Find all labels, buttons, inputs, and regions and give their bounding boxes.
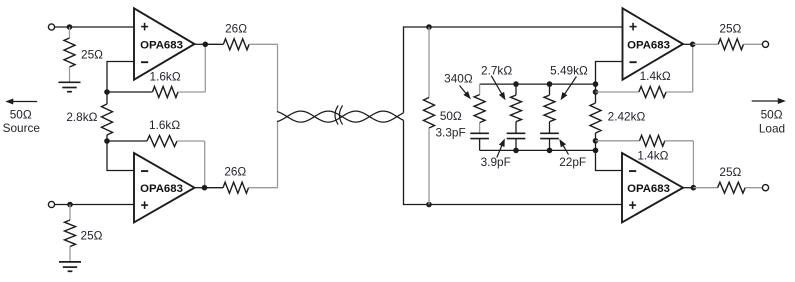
equalizer top rail (U3 inverting net) xyxy=(480,83,596,85)
wire column to U4 inverting input xyxy=(596,133,622,171)
resistor RT1 25 ohm (top input termination) xyxy=(64,27,75,82)
arrow to C2 xyxy=(497,144,503,158)
resistor RG1 2.8k ohm (gain-set between inverting inputs) xyxy=(102,92,113,141)
node F (U2 output) xyxy=(202,185,208,191)
op-amp U1 OPA683 (top-left driver) xyxy=(134,8,195,79)
label 50 ohm Load xyxy=(759,108,785,136)
svg-text:25Ω: 25Ω xyxy=(81,48,103,62)
wire node D to U2 inverting input xyxy=(107,141,134,171)
output terminal J4 (bottom) xyxy=(762,185,768,191)
resistor RO4 25 ohm (bottom output) xyxy=(693,182,762,193)
resistor RF2 1.6k ohm (U2 feedback, cross-coupled) xyxy=(107,136,205,147)
svg-text:25Ω: 25Ω xyxy=(719,21,741,35)
resistor RT3 50 ohm (line termination) xyxy=(424,27,435,205)
svg-text:2.7kΩ: 2.7kΩ xyxy=(481,64,512,78)
equalizer bottom rail (U4 inverting net) xyxy=(480,149,596,151)
op-amp U3 OPA683 (top-right receiver) xyxy=(623,8,684,79)
arrow to RE3 xyxy=(564,77,577,96)
node A (top input junction) xyxy=(67,24,73,30)
svg-text:50Ω: 50Ω xyxy=(440,109,462,123)
50 ohm Source direction arrow xyxy=(11,101,37,103)
arrow to C3 xyxy=(562,144,568,154)
svg-text:1.6kΩ: 1.6kΩ xyxy=(150,69,181,83)
svg-text:25Ω: 25Ω xyxy=(81,228,103,242)
resistor RF1 1.6k ohm (U1 feedback) xyxy=(107,87,205,98)
node on bottom rail at C2 xyxy=(513,148,519,154)
svg-text:50Ω: 50Ω xyxy=(761,108,783,122)
cable break marks xyxy=(335,106,343,125)
ground (top-left) xyxy=(59,82,81,91)
wire RF2 to U2 output node xyxy=(204,141,206,188)
resistor RT2 25 ohm (bottom input termination) xyxy=(65,205,76,262)
node bottom rail joins column xyxy=(593,148,599,154)
capacitor C3 22pF xyxy=(540,133,559,138)
node on top rail at RE2 xyxy=(513,81,519,87)
50 ohm Load direction arrow xyxy=(752,100,780,102)
wire J1 to U1 non-inverting input xyxy=(55,26,134,28)
node top rail joins column xyxy=(593,81,599,87)
node RF3 joins column xyxy=(593,89,599,95)
resistor RO1 26 ohm (top line build-out) xyxy=(205,39,277,50)
node G (top rail tap) xyxy=(426,24,432,30)
wire RF1 to U1 output node xyxy=(204,44,206,92)
svg-text:26Ω: 26Ω xyxy=(224,165,246,179)
wire U3 apex to output node xyxy=(683,43,693,45)
svg-text:25Ω: 25Ω xyxy=(719,165,741,179)
input terminal J2 (bottom) xyxy=(48,201,54,207)
node B (U1 inverting input net) xyxy=(104,89,110,95)
svg-text:26Ω: 26Ω xyxy=(225,21,247,35)
resistor RO2 26 ohm (bottom line build-out) xyxy=(205,182,278,193)
wire RO2 to twisted pair bottom xyxy=(277,122,279,188)
resistor RF4 1.4k ohm (U4 feedback) xyxy=(596,135,694,146)
node K (U4 output) xyxy=(691,185,697,191)
svg-text:Source: Source xyxy=(3,121,41,135)
twisted pair cable (conductor 1) xyxy=(277,111,404,122)
output terminal J3 (top) xyxy=(762,41,768,47)
wire U1 inverting input to node B xyxy=(107,62,134,93)
svg-text:Load: Load xyxy=(759,122,785,136)
input terminal J1 (top) xyxy=(48,24,54,30)
wire U4 apex to output node xyxy=(683,187,693,189)
twisted pair cable (conductor 2) xyxy=(277,111,404,122)
resistor RF3 1.4k ohm (U3 feedback) xyxy=(596,87,693,98)
svg-text:OPA683: OPA683 xyxy=(627,39,670,51)
svg-text:OPA683: OPA683 xyxy=(140,183,183,195)
wire U3 inverting input down equalizer column xyxy=(596,62,623,104)
resistor RO3 25 ohm (top output) xyxy=(693,39,763,50)
svg-text:2.8kΩ: 2.8kΩ xyxy=(66,110,97,124)
ground (bottom-left) xyxy=(59,262,81,271)
svg-text:1.4kΩ: 1.4kΩ xyxy=(640,69,671,83)
svg-text:3.9pF: 3.9pF xyxy=(481,155,511,169)
arrow to RE1 xyxy=(460,86,468,95)
svg-text:50Ω: 50Ω xyxy=(10,108,32,122)
svg-text:22pF: 22pF xyxy=(559,155,586,169)
capacitor C1 3.3pF xyxy=(470,133,489,138)
op-amp U2 OPA683 (bottom-left driver) xyxy=(134,153,195,222)
resistor RE2 2.7k ohm (equalizer branch 2) xyxy=(511,84,522,133)
arrow to RE2 xyxy=(491,76,502,96)
capacitor C2 3.9pF xyxy=(507,133,526,138)
wire RO1 to twisted pair top xyxy=(277,44,279,111)
wire U1 apex to output node xyxy=(195,43,206,45)
node D (U2 inverting input net) xyxy=(104,138,110,144)
svg-text:3.3pF: 3.3pF xyxy=(436,126,466,140)
resistor RE1 340 ohm (equalizer branch 1) xyxy=(474,84,485,133)
svg-text:2.42kΩ: 2.42kΩ xyxy=(608,110,646,124)
wire twisted pair top to U3 non-inverting rail xyxy=(404,27,623,113)
wire J2 to U2 non-inverting input xyxy=(55,204,134,206)
wire U2 apex to output node xyxy=(195,187,205,189)
svg-text:1.4kΩ: 1.4kΩ xyxy=(637,149,668,163)
node E (bottom input junction) xyxy=(67,202,73,208)
svg-text:340Ω: 340Ω xyxy=(444,71,473,85)
node RF4 joins column xyxy=(593,138,599,144)
resistor RE3 5.49k ohm (equalizer branch 3) xyxy=(544,84,555,133)
node H (bottom rail tap) xyxy=(426,202,432,208)
resistor RG2 2.42k ohm (between inverting inputs) xyxy=(590,103,601,133)
op-amp U4 OPA683 (bottom-right receiver) xyxy=(622,153,683,222)
wire RF4 to U4 output xyxy=(692,141,694,188)
node on top rail at RE3 xyxy=(547,81,553,87)
svg-text:1.6kΩ: 1.6kΩ xyxy=(149,118,180,132)
node C (U1 output) xyxy=(203,42,209,48)
svg-text:OPA683: OPA683 xyxy=(140,39,183,51)
wire twisted pair bottom to U4 non-inverting rail xyxy=(404,120,622,204)
label 50 ohm Source xyxy=(3,108,41,136)
wire RF3 to U3 output xyxy=(692,44,694,92)
svg-text:5.49kΩ: 5.49kΩ xyxy=(550,63,588,77)
node I (U3 output) xyxy=(690,42,696,48)
svg-text:OPA683: OPA683 xyxy=(627,183,670,195)
node on bottom rail at C3 xyxy=(547,148,553,154)
